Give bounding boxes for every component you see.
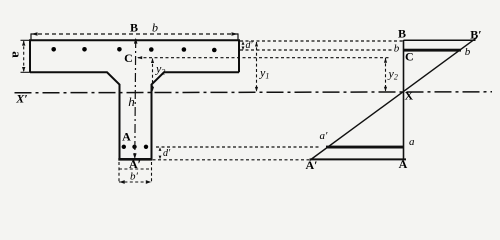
web bottom level dashed connector — [153, 159, 310, 161]
T-section flange outline — [30, 40, 239, 72]
svg-text:A: A — [122, 130, 131, 144]
flange bottom left + left haunch + web left edge — [30, 72, 120, 159]
top dashed width line B b — [31, 33, 238, 35]
b' extension right dashed line — [151, 162, 153, 183]
stress diagram diagonal A'-X-B' — [310, 38, 477, 161]
b' dimension dashed line with arrows — [119, 181, 152, 183]
right end arrow of width line — [232, 32, 238, 35]
a-dim extension tick at flange top — [21, 39, 31, 41]
svg-text:h: h — [128, 94, 135, 109]
left end drop of dashed width line — [30, 33, 32, 40]
a dimension arrow up — [22, 41, 25, 46]
svg-text:X′: X′ — [15, 92, 27, 106]
svg-text:B: B — [398, 27, 406, 41]
svg-text:d′: d′ — [163, 148, 171, 159]
y2 dimension line (left section) — [152, 59, 154, 92]
svg-text:C: C — [124, 51, 133, 65]
svg-text:A′: A′ — [305, 158, 317, 172]
stress diagram top line B-B' — [404, 39, 476, 41]
a dimension line (flange thickness) — [23, 41, 25, 72]
y1 arrow up — [255, 42, 258, 47]
svg-text:a: a — [10, 51, 25, 58]
web rebar dots — [122, 145, 149, 149]
X axis dash-dot line — [15, 92, 493, 93]
section vertical centerline (dash-dot) — [134, 39, 137, 159]
d' top dimension arrows — [242, 41, 245, 45]
flange rebar dots — [51, 47, 216, 52]
svg-text:C: C — [405, 50, 414, 64]
y2 left arrow down — [151, 87, 154, 92]
a-dim extension tick at flange bottom — [21, 71, 31, 73]
web bottom line A' — [118, 158, 152, 161]
b' upper dashed line — [119, 168, 152, 170]
svg-text:a′: a′ — [320, 130, 329, 142]
svg-text:b: b — [394, 43, 400, 55]
svg-text:A: A — [399, 157, 408, 171]
y2 dimension line (right) — [385, 58, 387, 91]
top stress bar b-b — [404, 49, 462, 52]
svg-text:b: b — [465, 46, 471, 58]
stress diagram bottom line A'-A — [310, 158, 407, 160]
svg-text:B: B — [130, 21, 138, 35]
a dimension arrow down — [22, 67, 25, 72]
bottom rebar level dashed connector — [156, 146, 319, 148]
rebar level dashed connector — [240, 49, 394, 51]
y1 arrow down — [255, 87, 258, 92]
svg-text:B′: B′ — [470, 28, 481, 42]
C line left arrow — [137, 56, 142, 59]
svg-text:b′: b′ — [130, 171, 139, 183]
y1 dimension line — [256, 42, 258, 91]
svg-text:X: X — [405, 89, 414, 103]
y2 right arrow down — [384, 87, 387, 92]
flange-top level dashed connector — [240, 40, 404, 42]
y2 right arrow up — [384, 58, 387, 63]
d' bottom dimension arrows — [159, 147, 162, 151]
left end arrow of width line — [31, 32, 37, 35]
centerline top arrow — [134, 38, 138, 44]
svg-text:a: a — [409, 136, 415, 148]
y2 left arrow up — [151, 58, 154, 63]
b' extension left dashed line — [118, 162, 120, 183]
centerline bottom arrow — [133, 153, 137, 159]
stress diagram vertical axis line — [403, 40, 405, 160]
bottom stress bar a'-a — [326, 146, 404, 149]
svg-text:b: b — [152, 21, 158, 35]
right end drop of dashed width line — [237, 33, 239, 40]
C level dashed line — [138, 57, 390, 59]
flange bottom right + right haunch + web right edge — [152, 72, 240, 159]
